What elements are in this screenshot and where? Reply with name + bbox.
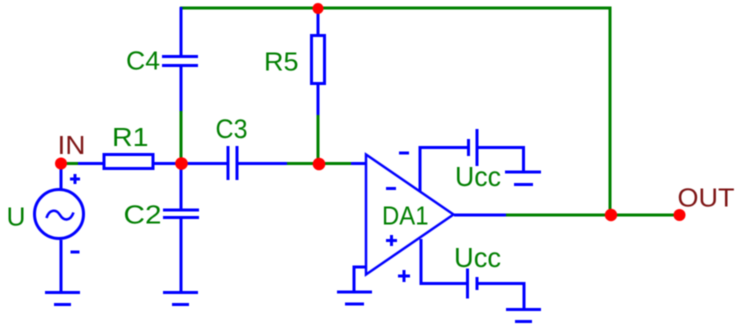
node output junction dot	[605, 209, 617, 221]
node A junction dot (R1/C2/C4/C3)	[175, 157, 188, 170]
resistor R5	[312, 36, 325, 84]
wire op-amp bottom power pin	[421, 239, 467, 284]
svg-text:Ucc: Ucc	[454, 242, 501, 273]
capacitor C3	[228, 146, 237, 180]
svg-text:OUT: OUT	[678, 183, 735, 213]
wire op-amp output lead	[454, 214, 506, 217]
op-amp non-inverting input plus marker	[386, 235, 397, 246]
source plus marker	[70, 174, 80, 184]
node top junction dot (C4/R5 feedback)	[313, 3, 324, 14]
node IN junction dot	[55, 158, 67, 170]
svg-text:Ucc: Ucc	[455, 161, 501, 192]
wire C4 top lead	[180, 7, 183, 56]
op-amp inverting input minus marker	[386, 187, 396, 190]
op-amp positive supply plus marker	[398, 270, 410, 282]
wire R5 bottom net green	[317, 114, 320, 165]
svg-text:C4: C4	[126, 46, 160, 76]
wire R1 left lead	[78, 162, 104, 165]
ground bottom Ucc	[506, 310, 541, 322]
node OUT terminal dot	[674, 209, 686, 221]
ground C2	[163, 293, 198, 305]
wire source top lead	[60, 164, 63, 190]
wire C2 top lead	[180, 164, 183, 211]
op-amp DA1 triangle	[366, 155, 454, 275]
wire R5 bottom lead	[317, 85, 320, 115]
wire source bottom lead	[60, 240, 63, 292]
wire R1 right lead to C3	[154, 162, 228, 165]
capacitor C2	[163, 210, 199, 218]
node B junction dot (C3/R5/op-amp)	[313, 158, 326, 171]
battery top Ucc long plate	[476, 129, 479, 166]
wire non-inverting input to ground	[354, 267, 366, 292]
svg-text:R5: R5	[264, 47, 299, 77]
svg-text:C3: C3	[216, 114, 248, 144]
ground op-amp non-inverting input	[337, 292, 372, 304]
battery bottom Ucc short plate	[476, 277, 479, 290]
wire C3 right lead	[238, 162, 287, 165]
wire IN stub green	[66, 162, 79, 165]
op-amp negative supply minus marker	[399, 152, 409, 155]
svg-text:R1: R1	[112, 122, 149, 152]
wire top Ucc to ground	[478, 148, 524, 173]
battery top Ucc short plate	[467, 139, 470, 156]
svg-text:DA1: DA1	[382, 201, 429, 231]
svg-text:U: U	[7, 202, 26, 232]
wire output net (green)	[505, 214, 680, 217]
wire op-amp top power pin	[420, 148, 467, 193]
wire net top feedback (C4 top to right rail)	[180, 8, 610, 215]
wire op-amp inverting input lead	[351, 162, 367, 165]
wire node B green segment (C3 to op-amp input)	[286, 162, 353, 165]
svg-text:IN: IN	[58, 130, 86, 160]
wire bottom Ucc to ground	[478, 284, 524, 310]
ground source U	[45, 293, 80, 305]
capacitor C4	[162, 57, 198, 66]
wire R5 top lead	[317, 7, 320, 35]
source U circle	[35, 190, 84, 239]
wire C4 bottom lead	[180, 65, 183, 111]
resistor R1	[104, 155, 153, 169]
source U sine wave	[47, 211, 74, 220]
battery bottom Ucc long plate	[466, 269, 469, 299]
source minus marker	[71, 251, 80, 254]
wire C4 bottom net green	[180, 110, 183, 165]
svg-text:C2: C2	[124, 200, 162, 230]
ground top Ucc	[505, 172, 541, 185]
wire C2 bottom lead to ground	[180, 217, 183, 292]
